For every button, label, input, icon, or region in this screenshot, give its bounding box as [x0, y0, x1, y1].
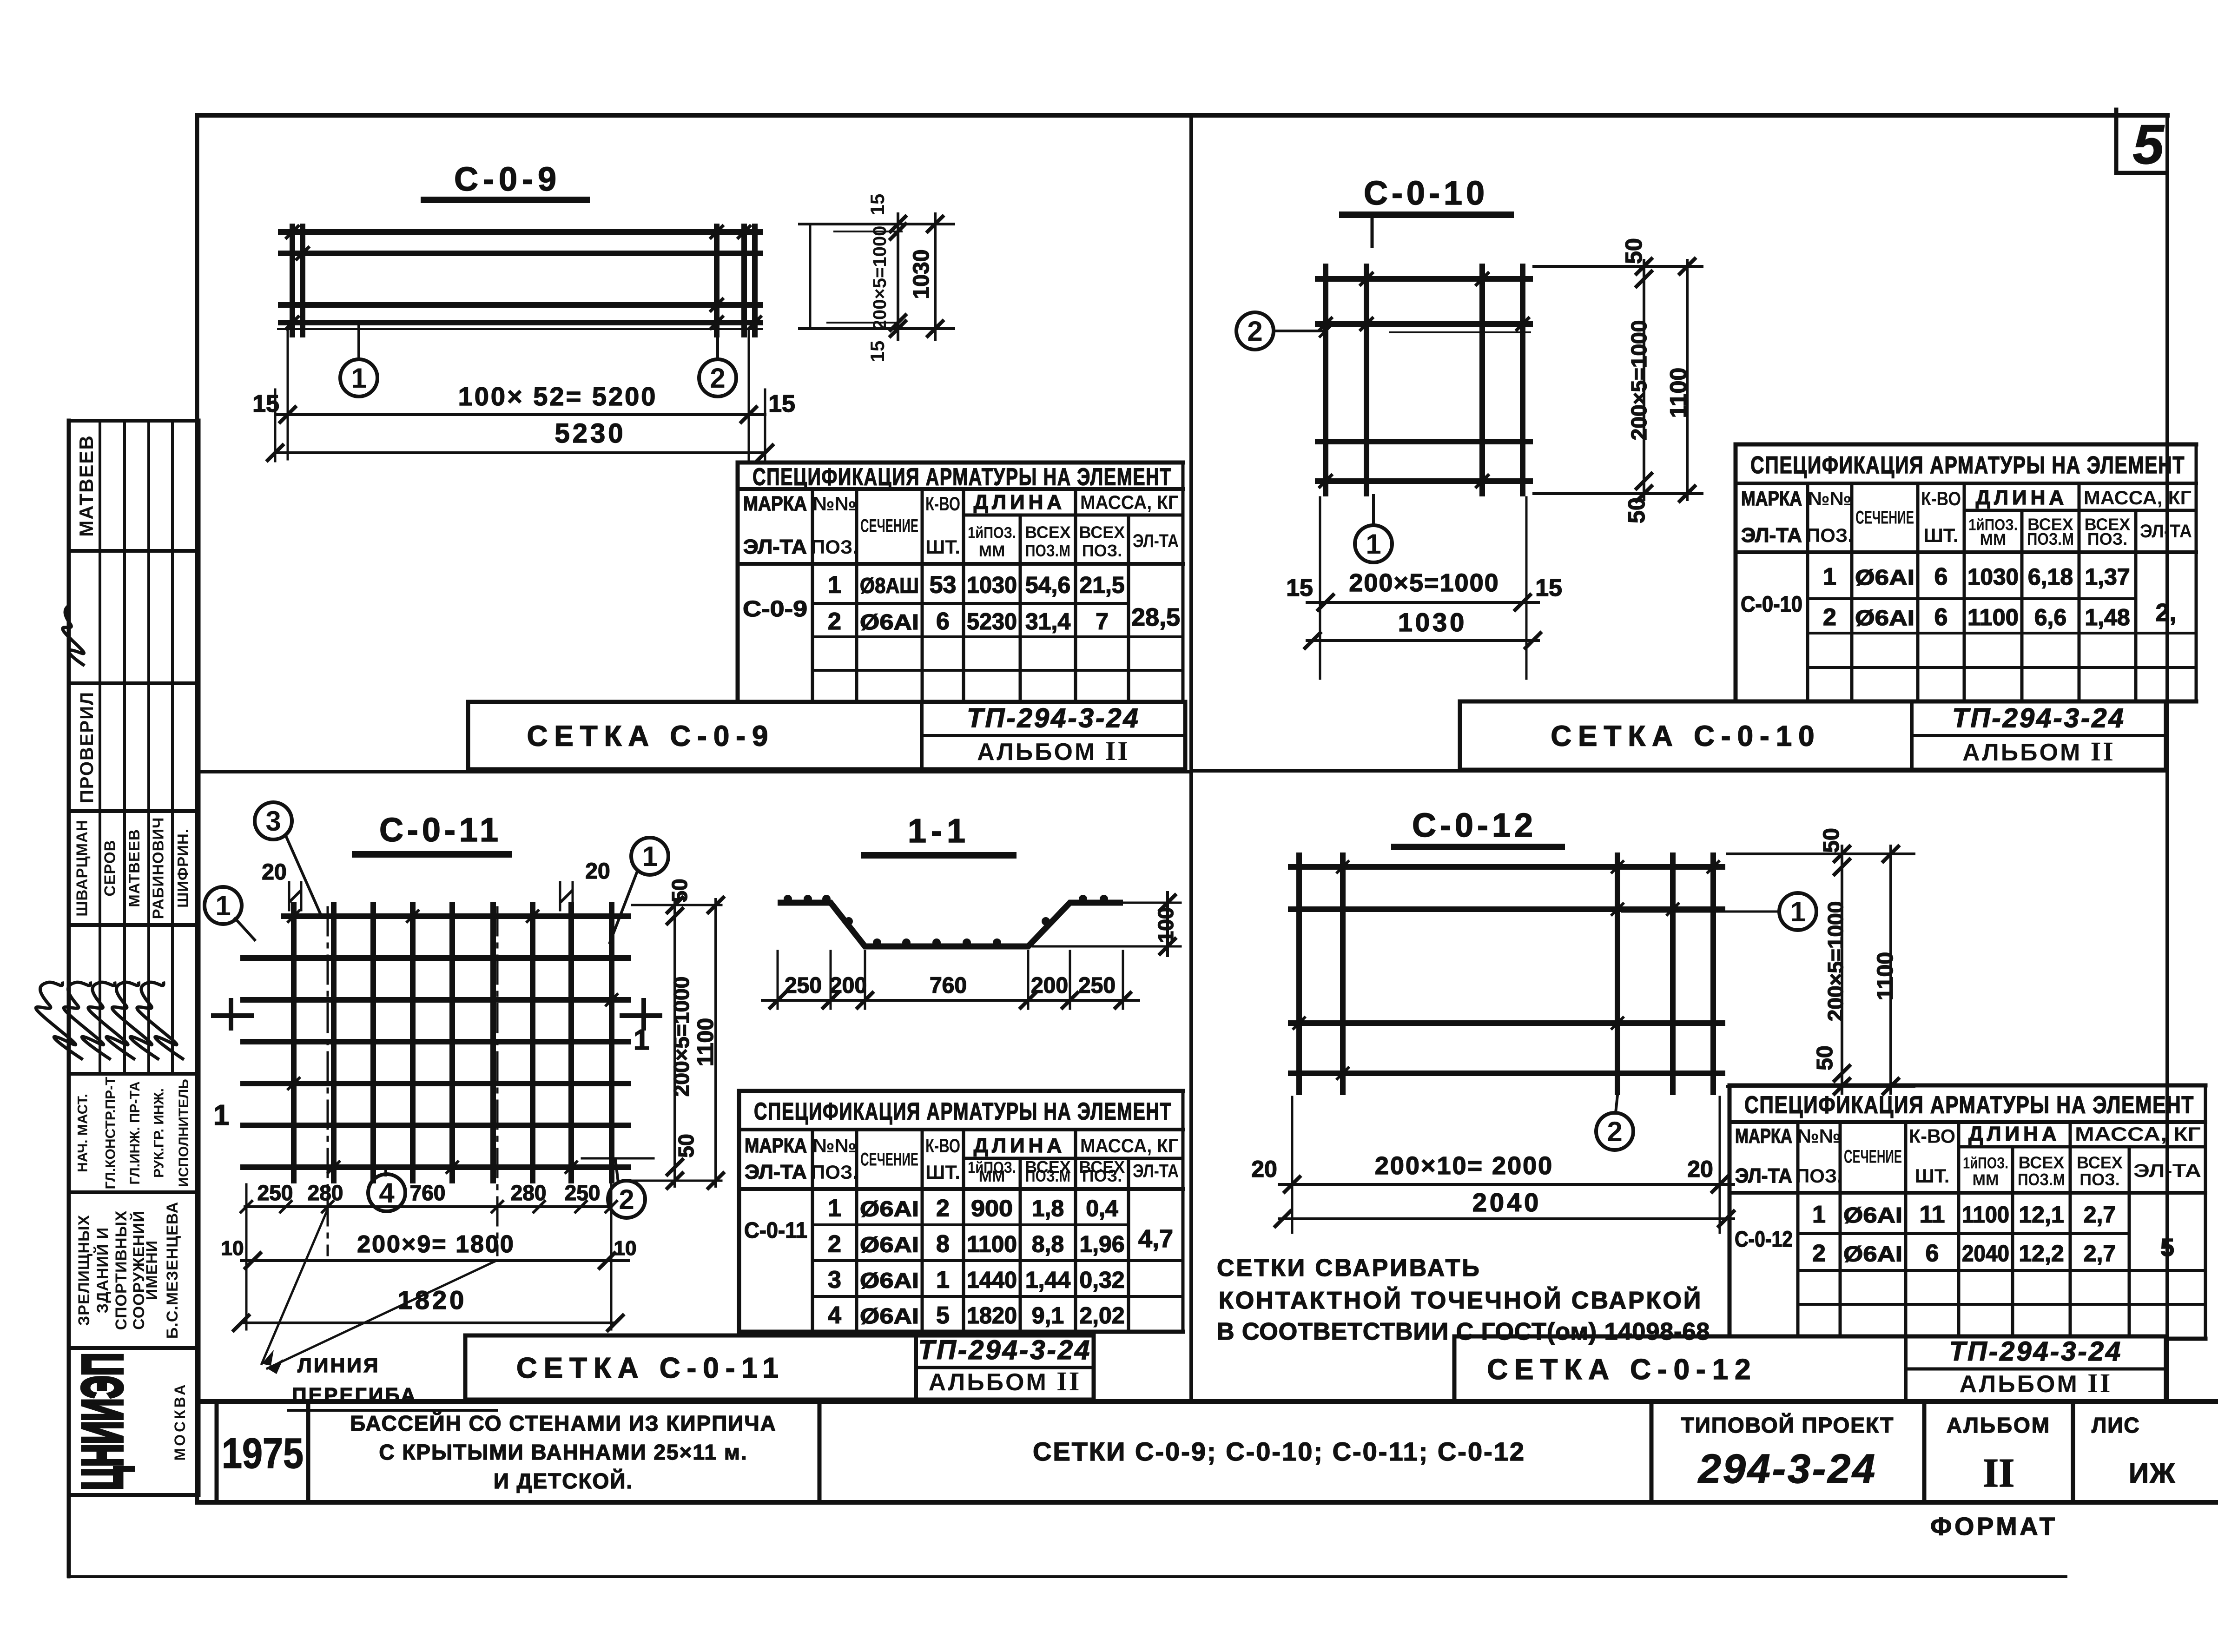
svg-text:200×5=1000: 200×5=1000	[1823, 901, 1848, 1021]
svg-text:50: 50	[1621, 238, 1647, 264]
right half divider	[1191, 769, 2167, 773]
svg-text:200: 200	[1031, 973, 1068, 998]
svg-text:Ø6АI: Ø6АI	[1843, 1242, 1902, 1266]
svg-text:2: 2	[1247, 316, 1262, 347]
svg-text:К-ВО: К-ВО	[1909, 1125, 1955, 1147]
svg-text:1: 1	[936, 1267, 950, 1294]
svg-text:6: 6	[1934, 604, 1948, 631]
mesh С-0-11 fold lines dash-dot	[328, 907, 497, 1255]
svg-text:6: 6	[1934, 563, 1948, 590]
svg-text:1: 1	[1790, 896, 1805, 927]
svg-text:СЕЧЕНИЕ: СЕЧЕНИЕ	[860, 1150, 918, 1170]
svg-text:5: 5	[2160, 1234, 2174, 1262]
svg-text:760: 760	[410, 1181, 446, 1205]
svg-text:ШТ.: ШТ.	[925, 536, 960, 558]
svg-text:ММ: ММ	[1980, 531, 2007, 548]
svg-text:СПЕЦИФИКАЦИЯ АРМАТУРЫ НА ЭЛ: СПЕЦИФИКАЦИЯ АРМАТУРЫ НА ЭЛЕМЕНТ	[1744, 1092, 2194, 1119]
svg-text:15: 15	[866, 194, 888, 216]
mesh С-0-9 thin edge line	[278, 328, 762, 330]
svg-text:9,1: 9,1	[1032, 1302, 1064, 1328]
svg-text:II: II	[1983, 1451, 2015, 1496]
svg-text:50: 50	[1819, 828, 1844, 852]
svg-text:1100: 1100	[693, 1018, 718, 1066]
svg-text:1: 1	[1812, 1201, 1826, 1228]
svg-text:ЭЛ-ТА: ЭЛ-ТА	[1741, 524, 1802, 547]
section 1-1 height dim	[1033, 892, 1181, 956]
svg-text:РУК.ГР. ИНЖ.: РУК.ГР. ИНЖ.	[152, 1088, 167, 1178]
stamp box СЕТКА С-0-9	[468, 702, 1185, 769]
svg-text:ТП-294-3-24: ТП-294-3-24	[1952, 703, 2126, 733]
svg-text:ЭЛ-ТА: ЭЛ-ТА	[743, 535, 807, 558]
svg-text:250: 250	[257, 1181, 293, 1205]
stamp box СЕТКА С-0-10	[1460, 701, 2166, 770]
sidebar institute name	[75, 1202, 181, 1339]
left half divider	[197, 770, 1191, 773]
svg-text:СЕТКА С-0-9: СЕТКА С-0-9	[527, 720, 775, 753]
svg-text:2,02: 2,02	[1079, 1302, 1124, 1328]
spec table frame	[1730, 1085, 2205, 1339]
svg-text:ЗДАНИЙ И: ЗДАНИЙ И	[93, 1227, 112, 1313]
svg-text:15: 15	[1286, 575, 1313, 601]
svg-text:1030: 1030	[1398, 608, 1467, 637]
svg-text:ГЛ.КОНСТР.ПР-Т: ГЛ.КОНСТР.ПР-Т	[103, 1077, 119, 1189]
svg-text:Ø6АI: Ø6АI	[860, 1197, 919, 1221]
svg-text:6: 6	[1926, 1240, 1939, 1267]
mesh С-0-12 horizontal wires	[1291, 867, 1723, 1073]
svg-text:Ø6АI: Ø6АI	[860, 1269, 919, 1293]
svg-text:2: 2	[828, 608, 841, 635]
title С-0-10	[1342, 175, 1511, 246]
svg-text:12,2: 12,2	[2019, 1241, 2064, 1267]
dim С-0-9 bottom chain	[266, 331, 774, 462]
svg-text:СЕТКИ С-0-9; С-0-10; С-0-1: СЕТКИ С-0-9; С-0-10; С-0-11; С-0-12	[1033, 1437, 1525, 1466]
svg-text:1: 1	[215, 890, 231, 921]
svg-text:НАЧ. МАСТ.: НАЧ. МАСТ.	[75, 1094, 91, 1172]
note линия перегиба	[288, 1354, 496, 1410]
svg-text:СЕТКА С-0-12: СЕТКА С-0-12	[1487, 1354, 1757, 1386]
svg-text:ВСЕХ: ВСЕХ	[2019, 1153, 2065, 1172]
svg-text:250: 250	[1078, 973, 1116, 998]
svg-text:ПОЗ.М: ПОЗ.М	[2027, 529, 2074, 548]
svg-text:С-0-11: С-0-11	[744, 1218, 807, 1243]
dim С-0-11 right chains	[632, 896, 725, 1189]
svg-text:ЭЛ-ТА: ЭЛ-ТА	[2140, 521, 2192, 542]
svg-text:С-0-11: С-0-11	[379, 812, 502, 849]
mesh С-0-9 vertical wires	[292, 226, 755, 335]
svg-text:20: 20	[262, 860, 286, 885]
title block list	[2092, 1413, 2176, 1489]
dim 20 top right	[560, 859, 610, 910]
svg-text:Ø6АI: Ø6АI	[860, 1233, 919, 1257]
svg-text:20: 20	[1687, 1156, 1713, 1182]
svg-text:1: 1	[828, 572, 841, 599]
svg-text:50: 50	[667, 879, 692, 902]
svg-text:20: 20	[585, 859, 610, 884]
svg-text:760: 760	[930, 973, 967, 998]
svg-text:1,96: 1,96	[1079, 1231, 1124, 1257]
svg-text:№№: №№	[813, 1135, 857, 1156]
svg-text:15: 15	[768, 390, 795, 417]
spec table header text	[745, 1098, 1179, 1186]
spec table data	[1741, 563, 2177, 631]
svg-text:ЗРЕЛИЩНЫХ: ЗРЕЛИЩНЫХ	[75, 1215, 93, 1326]
svg-text:ПОЗ.М: ПОЗ.М	[1025, 541, 1070, 560]
svg-text:1030: 1030	[967, 572, 1017, 598]
svg-text:С-0-12: С-0-12	[1735, 1227, 1793, 1252]
spec table data	[744, 1195, 1173, 1329]
page number 5 corner mark	[2116, 110, 2166, 176]
callout 1 mesh С-0-10	[1355, 496, 1392, 562]
svg-text:15: 15	[252, 390, 279, 417]
svg-text:№№: №№	[1808, 488, 1852, 509]
svg-text:ЭЛ-ТА: ЭЛ-ТА	[1133, 531, 1179, 551]
sidebar logo ЦНИИЭП	[71, 1353, 188, 1490]
svg-text:Б.С.МЕЗЕНЦЕВА: Б.С.МЕЗЕНЦЕВА	[164, 1202, 181, 1339]
svg-text:1: 1	[351, 363, 366, 394]
svg-text:ИСПОЛНИТЕЛЬ: ИСПОЛНИТЕЛЬ	[176, 1079, 191, 1187]
svg-text:ПОЗ.М: ПОЗ.М	[1025, 1166, 1070, 1185]
svg-text:0,4: 0,4	[1086, 1196, 1118, 1222]
spec table frame	[738, 463, 1183, 704]
spec table header text	[743, 464, 1179, 561]
svg-text:ТП-294-3-24: ТП-294-3-24	[967, 703, 1140, 733]
svg-text:2,7: 2,7	[2084, 1202, 2116, 1228]
svg-text:1-1: 1-1	[908, 813, 970, 850]
dim С-0-12 right chains	[1727, 845, 1914, 1095]
svg-text:6,6: 6,6	[2034, 604, 2067, 630]
svg-text:200: 200	[830, 973, 867, 998]
svg-text:РАБИНОВИЧ: РАБИНОВИЧ	[150, 817, 167, 919]
svg-text:С-0-10: С-0-10	[1741, 592, 1802, 617]
svg-text:2: 2	[936, 1195, 950, 1222]
svg-text:6: 6	[936, 608, 950, 635]
svg-text:3: 3	[265, 806, 281, 837]
svg-text:ДЛИНА: ДЛИНА	[1976, 486, 2067, 509]
svg-text:ПОЗ.: ПОЗ.	[811, 536, 858, 558]
svg-text:БАССЕЙН СО СТЕНАМИ ИЗ КИРП: БАССЕЙН СО СТЕНАМИ ИЗ КИРПИЧА	[350, 1411, 777, 1435]
svg-text:20: 20	[1251, 1156, 1277, 1182]
svg-text:МАРКА: МАРКА	[1741, 487, 1802, 510]
svg-text:ВСЕХ: ВСЕХ	[1025, 522, 1071, 542]
centre divider	[1189, 115, 1193, 1401]
svg-text:12,1: 12,1	[2019, 1202, 2064, 1228]
svg-text:15: 15	[866, 341, 888, 363]
svg-text:СПЕЦИФИКАЦИЯ АРМАТУРЫ НА ЭЛ: СПЕЦИФИКАЦИЯ АРМАТУРЫ НА ЭЛЕМЕНТ	[1750, 452, 2185, 479]
svg-text:Ø8АШ: Ø8АШ	[860, 574, 919, 598]
svg-text:200×5=1000: 200×5=1000	[870, 226, 890, 330]
svg-text:К-ВО: К-ВО	[925, 493, 960, 515]
svg-text:Ø6АI: Ø6АI	[1843, 1203, 1902, 1227]
svg-text:ДЛИНА: ДЛИНА	[974, 491, 1065, 514]
dim С-0-11 bottom chains	[232, 1184, 628, 1332]
svg-text:МОСКВА: МОСКВА	[172, 1382, 188, 1461]
svg-text:АЛЬБОМ II: АЛЬБОМ II	[1960, 1368, 2112, 1398]
svg-text:21,5: 21,5	[1079, 572, 1124, 598]
svg-text:ЭЛ-ТА: ЭЛ-ТА	[2133, 1161, 2201, 1181]
svg-text:250: 250	[565, 1181, 601, 1205]
mesh С-0-12 vertical wires	[1299, 855, 1713, 1092]
svg-text:Ø6АI: Ø6АI	[860, 1304, 919, 1328]
svg-text:МАССА, КГ: МАССА, КГ	[2075, 1123, 2201, 1145]
svg-text:КОНТАКТНОЙ ТОЧЕЧНОЙ СВАРКОЙ: КОНТАКТНОЙ ТОЧЕЧНОЙ СВАРКОЙ	[1219, 1287, 1703, 1314]
svg-text:2,7: 2,7	[2084, 1241, 2116, 1267]
svg-text:СЕЧЕНИЕ: СЕЧЕНИЕ	[1844, 1146, 1902, 1167]
svg-text:2040: 2040	[1472, 1188, 1542, 1217]
svg-text:С-0-9: С-0-9	[454, 161, 561, 198]
svg-text:ГЛ.ИНЖ. ПР-ТА: ГЛ.ИНЖ. ПР-ТА	[127, 1081, 143, 1184]
svg-text:АЛЬБОМ: АЛЬБОМ	[1947, 1413, 2051, 1437]
callout 1 mesh С-0-9	[357, 325, 360, 359]
title block album	[1947, 1413, 2051, 1496]
svg-text:С-0-9: С-0-9	[743, 597, 807, 621]
svg-text:1,48: 1,48	[2085, 604, 2130, 630]
svg-text:ШТ.: ШТ.	[1915, 1165, 1950, 1187]
svg-text:ЭЛ-ТА: ЭЛ-ТА	[1735, 1164, 1792, 1187]
svg-text:МАРКА: МАРКА	[1735, 1125, 1792, 1148]
svg-text:ШТ.: ШТ.	[1924, 524, 1959, 546]
svg-text:10: 10	[221, 1237, 244, 1260]
svg-text:2: 2	[1812, 1240, 1826, 1267]
svg-text:ПОЗ.: ПОЗ.	[1082, 541, 1122, 560]
sidebar signature 1	[56, 604, 94, 666]
svg-text:1: 1	[642, 841, 657, 872]
svg-text:ПОЗ.: ПОЗ.	[2079, 1170, 2119, 1189]
svg-text:МАССА, КГ: МАССА, КГ	[1080, 1135, 1178, 1156]
svg-text:1: 1	[828, 1195, 841, 1222]
sidebar signatures row	[23, 976, 205, 1060]
mesh С-0-12 ticks	[1293, 860, 1720, 1080]
svg-text:ИЖ: ИЖ	[2129, 1458, 2176, 1489]
svg-text:6,18: 6,18	[2028, 564, 2073, 590]
svg-text:100× 52= 5200: 100× 52= 5200	[458, 382, 658, 411]
svg-text:ШВАРЦМАН: ШВАРЦМАН	[73, 819, 91, 916]
svg-text:СЕЧЕНИЕ: СЕЧЕНИЕ	[860, 516, 918, 536]
svg-text:4,7: 4,7	[1138, 1225, 1173, 1253]
stamp box СЕТКА С-0-12	[1454, 1336, 2166, 1401]
svg-text:К-ВО: К-ВО	[925, 1135, 960, 1156]
svg-text:СПЕЦИФИКАЦИЯ АРМАТУРЫ НА ЭЛ: СПЕЦИФИКАЦИЯ АРМАТУРЫ НА ЭЛЕМЕНТ	[753, 464, 1172, 491]
spec table data	[743, 572, 1180, 635]
svg-text:Ø6АI: Ø6АI	[860, 610, 919, 634]
svg-text:ММ: ММ	[979, 1168, 1005, 1185]
svg-text:ЛИНИЯ: ЛИНИЯ	[297, 1354, 380, 1377]
svg-text:ММ: ММ	[1973, 1171, 1999, 1189]
mesh С-0-10 ticks	[1319, 272, 1530, 488]
section mark 1-1 right	[622, 1000, 660, 1056]
spec table header text	[1741, 452, 2192, 548]
svg-text:53: 53	[930, 572, 957, 599]
svg-text:7: 7	[1096, 608, 1109, 634]
dim 20 top left	[262, 860, 301, 910]
svg-text:50: 50	[674, 1134, 698, 1157]
svg-text:ПОЗ.: ПОЗ.	[2087, 529, 2127, 548]
welding note	[1217, 1255, 1710, 1345]
svg-text:200×10= 2000: 200×10= 2000	[1375, 1152, 1553, 1180]
callout 3	[255, 802, 322, 917]
svg-text:ПРОВЕРИЛ: ПРОВЕРИЛ	[77, 691, 97, 803]
callout 4 С-0-11	[368, 1170, 405, 1211]
spec table data	[1735, 1201, 2174, 1267]
svg-text:АЛЬБОМ II: АЛЬБОМ II	[929, 1366, 1082, 1396]
svg-text:СЕРОВ: СЕРОВ	[101, 840, 119, 897]
svg-text:СЕТКИ СВАРИВАТЬ: СЕТКИ СВАРИВАТЬ	[1217, 1255, 1481, 1282]
svg-text:4: 4	[828, 1302, 841, 1329]
mesh С-0-11 vertical wires	[294, 905, 612, 1181]
svg-text:1100: 1100	[1967, 604, 2019, 630]
section mark 1-1 left	[213, 1000, 252, 1131]
svg-text:1: 1	[213, 1099, 229, 1131]
svg-text:2,: 2,	[2155, 599, 2176, 627]
svg-text:1,44: 1,44	[1025, 1267, 1071, 1293]
svg-text:28,5: 28,5	[1131, 603, 1180, 631]
svg-text:ШТ.: ШТ.	[925, 1161, 960, 1183]
svg-text:АЛЬБОМ II: АЛЬБОМ II	[1962, 736, 2115, 767]
title block object name	[350, 1411, 777, 1493]
section 1-1 profile	[778, 895, 1123, 947]
mesh С-0-9 end ticks	[285, 225, 762, 330]
svg-text:ЭЛ-ТА: ЭЛ-ТА	[745, 1161, 807, 1183]
svg-text:1: 1	[634, 1024, 649, 1056]
svg-text:250: 250	[785, 973, 822, 998]
callout 2 mesh С-0-9	[716, 331, 719, 359]
svg-text:3: 3	[828, 1267, 841, 1294]
svg-text:ДЛИНА: ДЛИНА	[1968, 1123, 2060, 1145]
sidebar table grid	[69, 421, 198, 1576]
svg-text:15: 15	[1535, 575, 1562, 601]
svg-text:МАССА, КГ: МАССА, КГ	[1080, 491, 1178, 513]
svg-text:1,37: 1,37	[2085, 564, 2130, 590]
svg-text:СЕТКА С-0-11: СЕТКА С-0-11	[516, 1352, 785, 1384]
bottom trim line	[69, 1502, 2066, 1577]
dim С-0-10 bottom chain	[1304, 497, 1542, 679]
svg-text:1030: 1030	[909, 250, 934, 299]
svg-text:В СООТВЕТСТВИИ С ГОСТ(ом) 1: В СООТВЕТСТВИИ С ГОСТ(ом) 14098-68	[1217, 1318, 1710, 1345]
svg-text:54,6: 54,6	[1025, 572, 1070, 598]
svg-text:С КРЫТЫМИ ВАННАМИ 25×11 м.: С КРЫТЫМИ ВАННАМИ 25×11 м.	[379, 1440, 747, 1464]
svg-text:5230: 5230	[967, 608, 1017, 634]
svg-text:ПОЗ.: ПОЗ.	[811, 1161, 858, 1183]
svg-text:МАТВЕЕВ: МАТВЕЕВ	[125, 829, 143, 907]
svg-text:1100: 1100	[1665, 368, 1691, 418]
svg-text:5: 5	[2133, 113, 2165, 176]
svg-text:ПОЗ.: ПОЗ.	[1796, 1165, 1842, 1187]
svg-text:1100: 1100	[967, 1231, 1017, 1257]
svg-text:1йПОЗ.: 1йПОЗ.	[1963, 1155, 2008, 1172]
svg-text:2: 2	[828, 1231, 841, 1258]
svg-text:МАТВЕЕВ: МАТВЕЕВ	[75, 435, 97, 537]
spec table frame	[739, 1091, 1183, 1332]
svg-text:С-0-12: С-0-12	[1412, 807, 1537, 844]
svg-text:1820: 1820	[967, 1302, 1017, 1328]
svg-text:280: 280	[511, 1181, 547, 1205]
dim С-0-12 bottom chain	[1274, 1097, 1735, 1233]
svg-text:0,32: 0,32	[1079, 1267, 1124, 1293]
title block project	[1681, 1413, 1895, 1492]
svg-text:1,8: 1,8	[1032, 1196, 1064, 1222]
svg-text:ФОРМАТ: ФОРМАТ	[1930, 1513, 2058, 1540]
svg-text:10: 10	[614, 1237, 637, 1260]
svg-text:200×9= 1800: 200×9= 1800	[357, 1231, 515, 1258]
svg-text:1100: 1100	[1962, 1202, 2009, 1228]
callout 2 mesh С-0-10	[1236, 312, 1332, 350]
sheet frame	[197, 115, 2167, 1502]
title block grid	[197, 1401, 2218, 1502]
svg-text:1100: 1100	[1873, 952, 1898, 1000]
svg-text:СЕЧЕНИЕ: СЕЧЕНИЕ	[1855, 508, 1914, 528]
svg-text:8,8: 8,8	[1032, 1231, 1064, 1257]
svg-text:С-0-10: С-0-10	[1364, 175, 1488, 212]
svg-text:11: 11	[1920, 1201, 1945, 1228]
svg-text:МАРКА: МАРКА	[743, 492, 807, 515]
svg-text:2: 2	[710, 363, 725, 394]
stamp box СЕТКА С-0-11	[465, 1335, 1094, 1400]
mesh С-0-11 ticks	[287, 910, 618, 1174]
title С-0-9	[424, 161, 587, 200]
dim С-0-10 right chains	[1534, 258, 1702, 502]
title С-0-11	[355, 812, 509, 854]
svg-text:1030: 1030	[1967, 564, 2019, 590]
svg-text:1йПОЗ.: 1йПОЗ.	[968, 524, 1016, 542]
svg-text:2: 2	[1823, 604, 1836, 631]
svg-text:900: 900	[971, 1196, 1013, 1222]
svg-text:50: 50	[1813, 1045, 1837, 1070]
svg-text:СПЕЦИФИКАЦИЯ АРМАТУРЫ НА ЭЛ: СПЕЦИФИКАЦИЯ АРМАТУРЫ НА ЭЛЕМЕНТ	[754, 1098, 1172, 1125]
title С-0-12	[1394, 807, 1562, 847]
callout 2 С-0-11	[582, 1158, 654, 1218]
mesh С-0-10 vertical wires	[1326, 266, 1523, 494]
svg-text:ШИФРИН.: ШИФРИН.	[174, 828, 191, 908]
svg-text:100: 100	[1154, 907, 1178, 943]
svg-text:8: 8	[936, 1231, 950, 1258]
svg-text:К-ВО: К-ВО	[1921, 488, 1961, 509]
svg-text:№№: №№	[1797, 1125, 1841, 1147]
svg-text:ТП-294-3-24: ТП-294-3-24	[918, 1335, 1092, 1365]
svg-text:ПОЗ.М: ПОЗ.М	[2018, 1170, 2065, 1189]
svg-text:1: 1	[1366, 529, 1381, 560]
sidebar names row	[73, 817, 192, 919]
dim С-0-9 right box	[799, 214, 954, 339]
svg-text:ДЛИНА: ДЛИНА	[974, 1134, 1065, 1157]
svg-text:1440: 1440	[967, 1267, 1017, 1293]
svg-text:50: 50	[1624, 497, 1650, 523]
svg-text:1975: 1975	[222, 1430, 304, 1477]
callout 2 С-0-12	[1596, 1095, 1633, 1150]
section 1-1 dim chain	[762, 951, 1139, 1009]
svg-text:5: 5	[936, 1302, 950, 1329]
svg-text:ИМЕНИ: ИМЕНИ	[143, 1240, 161, 1300]
svg-text:ТИПОВОЙ ПРОЕКТ: ТИПОВОЙ ПРОЕКТ	[1681, 1413, 1895, 1437]
svg-text:ЛИС: ЛИС	[2092, 1413, 2140, 1437]
svg-text:200×5=1000: 200×5=1000	[1627, 320, 1651, 440]
svg-text:МАССА, КГ: МАССА, КГ	[2084, 487, 2192, 509]
svg-text:Ø6АI: Ø6АI	[1855, 606, 1914, 630]
svg-text:200×5=1000: 200×5=1000	[1349, 569, 1499, 597]
sidebar job titles row	[75, 1077, 192, 1189]
svg-text:Ø6АI: Ø6АI	[1855, 565, 1914, 589]
mesh С-0-10 horizontal wires	[1318, 279, 1530, 481]
spec table header text	[1735, 1092, 2201, 1189]
svg-text:1: 1	[1823, 563, 1836, 590]
svg-text:2: 2	[1607, 1116, 1622, 1147]
svg-text:И ДЕТСКОЙ.: И ДЕТСКОЙ.	[494, 1469, 633, 1493]
callout 1 left С-0-11	[205, 887, 255, 940]
spec table frame	[1736, 444, 2196, 701]
svg-text:СПОРТИВНЫХ: СПОРТИВНЫХ	[112, 1210, 130, 1330]
svg-text:ТП-294-3-24: ТП-294-3-24	[1949, 1336, 2123, 1367]
callout 1 С-0-12	[1622, 893, 1816, 930]
fold line note arrows	[262, 1211, 496, 1374]
svg-text:2040: 2040	[1962, 1241, 2009, 1267]
